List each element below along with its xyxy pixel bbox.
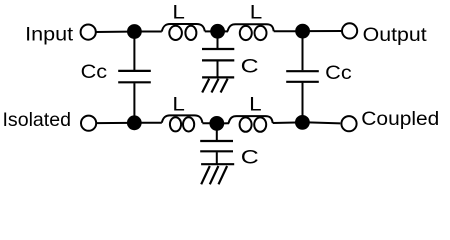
wire: node 1 down to capacitor Cc left xyxy=(133,32,135,71)
wire: inductor L1 to node 2 xyxy=(205,30,212,32)
wire: inductor L2 to node 3 xyxy=(274,30,297,32)
node 1 xyxy=(127,24,142,39)
svg-text:Output: Output xyxy=(363,24,428,46)
inductor L4 xyxy=(229,116,273,123)
svg-text:Cc: Cc xyxy=(81,61,108,83)
wire: Input terminal to node 1 xyxy=(96,31,130,33)
node 6 xyxy=(295,115,310,130)
svg-text:Coupled: Coupled xyxy=(361,108,439,130)
wire: node 4 to inductor L3 xyxy=(134,122,162,124)
terminal Coupled xyxy=(341,116,356,131)
terminal Isolated xyxy=(81,116,96,131)
wire: node 3 down to capacitor Cc right xyxy=(302,31,304,70)
wire: inductor L4 to node 6 xyxy=(273,122,296,125)
svg-text:Isolated: Isolated xyxy=(3,109,72,131)
wire: node 2 down to capacitor C top xyxy=(217,31,219,48)
inductor L2 xyxy=(228,24,274,31)
wire: Isolated terminal to node 4 xyxy=(96,122,130,124)
wire: node 3 to Output terminal xyxy=(308,30,342,32)
terminal Output xyxy=(342,23,357,38)
wire: capacitor C top down to ground 1 xyxy=(217,61,219,77)
inductor L1 xyxy=(162,24,205,32)
wire: capacitor Cc right down to node 6 xyxy=(302,83,304,123)
terminal Input xyxy=(81,24,96,39)
node 3 xyxy=(295,24,310,39)
node 2 xyxy=(210,24,225,39)
svg-text:L: L xyxy=(172,1,185,23)
capacitor C bottom plates xyxy=(200,140,233,142)
wire: capacitor Cc left down to node 4 xyxy=(133,83,135,123)
wire: node 2 to inductor L2 xyxy=(223,30,228,32)
capacitor Cc left plates xyxy=(118,70,151,72)
wire: node 1 to inductor L1 xyxy=(134,31,162,33)
svg-text:C: C xyxy=(241,146,259,168)
capacitor C top plates xyxy=(202,48,234,50)
svg-text:Input: Input xyxy=(25,24,74,46)
ground 1 xyxy=(202,76,234,78)
wire: capacitor C bottom down to ground 2 xyxy=(216,152,218,164)
svg-text:L: L xyxy=(249,93,262,115)
wire: node 5 to inductor L4 xyxy=(223,122,230,124)
node 4 xyxy=(127,115,142,130)
svg-text:C: C xyxy=(241,55,259,77)
wire: node 5 down to capacitor C bottom xyxy=(216,123,218,140)
inductor L3 xyxy=(162,115,203,123)
svg-text:L: L xyxy=(172,93,185,115)
capacitor Cc right plates xyxy=(286,70,319,72)
svg-text:L: L xyxy=(250,1,263,23)
ground 2 xyxy=(201,163,234,165)
wire: node 6 to Coupled terminal xyxy=(308,122,340,123)
svg-text:Cc: Cc xyxy=(325,62,352,84)
wire: inductor L3 to node 5 xyxy=(202,122,210,124)
node 5 xyxy=(209,116,224,131)
